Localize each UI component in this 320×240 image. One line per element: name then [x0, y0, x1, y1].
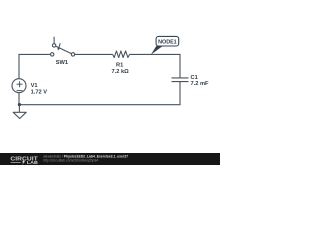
- wire top throw stub: [53, 37, 55, 44]
- wire resistor to top-right corner down to capacitor: [130, 54, 180, 77]
- wire capacitor down right rail and bottom rail: [19, 82, 180, 105]
- wire top-left corner from V1 up to switch: [19, 54, 51, 79]
- switch SW1 lever: [56, 46, 72, 54]
- switch SW1 actuation arrow: [59, 43, 61, 48]
- svg-text:7.2 kΩ: 7.2 kΩ: [111, 69, 129, 75]
- capacitor C1: [172, 78, 189, 82]
- plus sign: [17, 83, 23, 85]
- voltage source V1 body circle: [12, 79, 26, 93]
- voltage source V1: [12, 79, 26, 93]
- capacitor C1 top plate: [172, 77, 189, 79]
- wire V1 bottom to junction: [18, 93, 20, 105]
- node NODE1 flag box: [156, 36, 179, 46]
- footer logo underline dash: [11, 162, 21, 164]
- switch SW1 left throw terminal circle: [51, 53, 54, 56]
- svg-text:NODE1: NODE1: [158, 40, 177, 46]
- svg-text:SW1: SW1: [56, 60, 68, 66]
- switch SW1 top throw terminal circle: [52, 44, 55, 47]
- footer bar: [0, 153, 220, 165]
- ground: [13, 105, 26, 119]
- switch SW1 common terminal circle: [71, 53, 74, 56]
- ground triangle: [13, 112, 26, 118]
- footer logo lightning bolt: [22, 159, 25, 164]
- junction dot: [18, 103, 21, 106]
- wire switch to resistor: [75, 53, 113, 55]
- capacitor C1 bottom plate: [172, 81, 189, 83]
- resistor R1: [113, 51, 130, 58]
- svg-text:LAB: LAB: [27, 160, 38, 165]
- svg-text:R1: R1: [116, 63, 123, 69]
- svg-text:1.72 V: 1.72 V: [31, 89, 48, 95]
- node NODE1 flag pointer: [151, 46, 162, 55]
- svg-text:V1: V1: [31, 83, 38, 89]
- svg-text:7.2 mF: 7.2 mF: [191, 81, 210, 87]
- svg-text:http://circuitlab.com/c6hm3vkq: http://circuitlab.com/c6hm3vkq2bp84: [43, 159, 98, 163]
- minus sign: [17, 90, 23, 92]
- ground stub wire: [18, 105, 20, 113]
- switch SW1: [51, 37, 75, 56]
